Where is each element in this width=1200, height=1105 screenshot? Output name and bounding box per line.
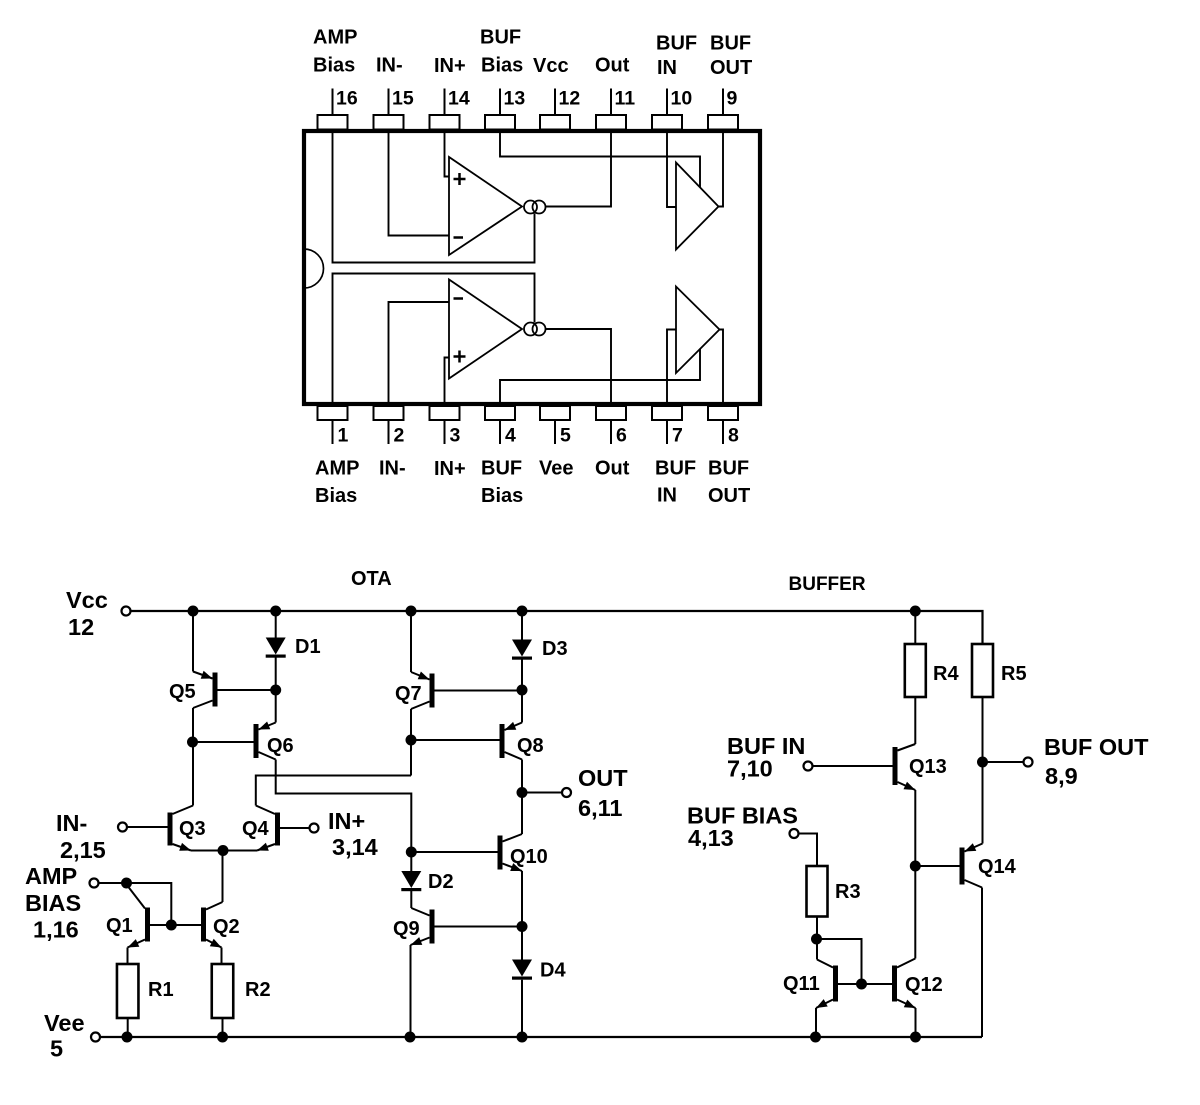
pin 3 xyxy=(430,406,461,447)
svg-text:2,15: 2,15 xyxy=(60,837,106,863)
wire amp A output to pin11 Out xyxy=(546,131,612,207)
diode D1 xyxy=(266,638,286,658)
wire Q6 base to node xyxy=(193,741,254,743)
wire Q5 base to D1 cathode xyxy=(218,689,276,691)
wire Vcc to R4 xyxy=(914,611,916,644)
transistor Q4 (NPN) xyxy=(256,806,280,851)
node: Vcc/D3 junction xyxy=(517,606,528,617)
node: common emitter junction xyxy=(218,845,229,856)
transistor Q14 (PNP) xyxy=(960,843,983,887)
svg-text:Q13: Q13 xyxy=(909,756,947,778)
svg-text:R5: R5 xyxy=(1001,663,1027,685)
svg-text:Bias: Bias xyxy=(313,55,355,77)
svg-text:IN+: IN+ xyxy=(434,458,466,480)
svg-text:R1: R1 xyxy=(148,979,174,1001)
wire Vcc to D1 anode xyxy=(275,611,277,638)
transistor Q5 (PNP) xyxy=(193,671,218,708)
svg-text:OUT: OUT xyxy=(710,57,752,79)
resistor R4 xyxy=(905,644,926,697)
transistor Q7 (PNP) xyxy=(411,672,435,710)
transistor Q10 (NPN) xyxy=(498,834,523,871)
wire Q8 collector to OUT node xyxy=(521,760,523,793)
wire R1 to Vee rail xyxy=(127,1018,129,1037)
Vee rail wire (node Vee) xyxy=(100,1036,982,1038)
svg-text:Bias: Bias xyxy=(315,485,357,507)
node: AMP BIAS / Q1 collector junction xyxy=(121,878,132,889)
svg-text:1,16: 1,16 xyxy=(33,917,79,943)
wire R5 to BUF OUT node xyxy=(982,697,984,762)
svg-text:8: 8 xyxy=(728,425,739,447)
Vee terminal pin 5 xyxy=(44,1010,100,1062)
svg-text:IN-: IN- xyxy=(56,810,87,836)
svg-text:Bias: Bias xyxy=(481,485,523,507)
amp A output current-source symbol xyxy=(524,201,546,214)
pin 10 xyxy=(652,88,692,130)
wire Vcc to Q7 emitter xyxy=(410,611,412,672)
node: Q7 collector / Q8 base xyxy=(406,735,417,746)
transistor Q1 (NPN) xyxy=(127,885,151,948)
wire pin2 IN- to amp B xyxy=(389,302,450,404)
node: Vcc/Q7 junction xyxy=(406,606,417,617)
node: Vcc/Q5 junction xyxy=(188,606,199,617)
wire Q9 emitter to Vee xyxy=(410,945,412,1037)
svg-text:IN: IN xyxy=(657,485,677,507)
wire Q4 base to IN+ xyxy=(280,827,310,829)
pin 16 xyxy=(318,88,358,130)
wire pin16 AMP Bias to amp A bias xyxy=(333,131,535,263)
svg-text:Q14: Q14 xyxy=(978,856,1017,878)
BUF IN terminal pins 7,10 xyxy=(727,733,813,782)
svg-text:BUF: BUF xyxy=(655,458,696,480)
wire D3 cathode to Q8 emitter xyxy=(521,660,523,723)
transistor Q2 (NPN) xyxy=(201,902,223,948)
wire node to D2 anode xyxy=(410,846,412,871)
node: Q5 collector / Q6 base / Q3 collector xyxy=(187,737,198,748)
svg-text:AMP: AMP xyxy=(315,458,359,480)
wire amp B output to pin6 Out xyxy=(546,329,612,404)
svg-text:4: 4 xyxy=(505,425,516,447)
svg-text:Q11: Q11 xyxy=(783,973,820,995)
svg-text:BUF: BUF xyxy=(480,27,521,49)
node: Q12 emitter / Vee junction xyxy=(910,1032,921,1043)
wire Q8 base to Q7 collector node xyxy=(411,739,500,741)
pin 7 xyxy=(652,406,683,447)
svg-text:7,10: 7,10 xyxy=(727,756,773,782)
wire pin1 AMP Bias to amp B bias xyxy=(333,274,535,405)
AMP BIAS terminal pins 1,16 xyxy=(25,863,99,943)
wire pin3 IN+ to amp B xyxy=(445,358,450,405)
op-amp A (OTA A) xyxy=(449,157,522,255)
wire pin7 BUF IN to buffer B xyxy=(667,330,676,405)
svg-text:14: 14 xyxy=(448,88,470,110)
Vcc terminal pin 12 xyxy=(66,587,131,640)
IN+ terminal pins 3,14 xyxy=(310,808,378,860)
wire Q14 collector to Vee rail xyxy=(981,888,983,1038)
svg-text:Q6: Q6 xyxy=(267,735,294,757)
wire pin4 BUF Bias to buffer B xyxy=(500,349,700,405)
transistor Q9 (NPN) xyxy=(411,908,435,945)
wire Vcc to Q5 emitter xyxy=(192,611,194,672)
svg-text:R4: R4 xyxy=(933,663,959,685)
transistor Q8 (PNP) xyxy=(500,722,523,760)
buffer B triangle xyxy=(676,287,720,374)
svg-text:IN-: IN- xyxy=(379,458,406,480)
BUF OUT terminal pins 8,9 xyxy=(1024,734,1150,789)
node: Vcc / R4 junction xyxy=(910,606,921,617)
svg-text:OUT: OUT xyxy=(708,485,750,507)
wire Q1 emitter to R1 xyxy=(127,948,129,965)
wire D4 cathode to Vee xyxy=(521,980,523,1037)
node: D1 / Q5 base / Q6 emitter junction xyxy=(270,685,281,696)
wire D1 cathode down to Q6 emitter xyxy=(275,658,277,723)
bottom pin name labels xyxy=(315,458,750,508)
svg-text:Q4: Q4 xyxy=(242,818,270,840)
svg-text:IN: IN xyxy=(657,57,677,79)
resistor R1 xyxy=(117,964,139,1018)
pin 12 xyxy=(540,88,580,130)
node: Q11 emitter / Vee junction xyxy=(810,1032,821,1043)
transistor Q13 (NPN) xyxy=(893,744,916,790)
OUT terminal pins 6,11 xyxy=(562,765,628,821)
wire IN- to Q3 base xyxy=(127,826,168,828)
svg-text:16: 16 xyxy=(336,88,358,110)
svg-text:AMP: AMP xyxy=(25,863,77,889)
svg-text:9: 9 xyxy=(727,88,738,110)
pin 8 xyxy=(708,406,739,447)
wire BUF IN to Q13 base xyxy=(813,765,893,767)
svg-text:11: 11 xyxy=(615,88,636,110)
node: base rail junction xyxy=(166,920,177,931)
svg-text:Q9: Q9 xyxy=(393,918,420,940)
wire Q10 emitter down xyxy=(521,871,523,960)
pin 5 xyxy=(540,406,571,447)
svg-text:12: 12 xyxy=(559,88,581,110)
BUF BIAS terminal pins 4,13 xyxy=(687,803,799,852)
svg-text:IN-: IN- xyxy=(376,55,403,77)
svg-text:Q10: Q10 xyxy=(510,846,548,868)
pin 15 xyxy=(374,88,414,130)
svg-text:7: 7 xyxy=(672,425,683,447)
svg-text:13: 13 xyxy=(504,88,526,110)
transistor Q3 (NPN) xyxy=(168,806,194,851)
node: D4 / Vee junction xyxy=(517,1032,528,1043)
node: R3 / Q11 collector junction xyxy=(811,934,822,945)
node: Vcc/D1 junction xyxy=(270,606,281,617)
svg-text:D4: D4 xyxy=(540,960,566,982)
diode D3 xyxy=(512,640,532,660)
svg-text:BUF: BUF xyxy=(708,458,749,480)
svg-text:Vee: Vee xyxy=(539,458,573,480)
svg-text:12: 12 xyxy=(68,614,94,640)
svg-text:BUF: BUF xyxy=(710,33,751,55)
transistor Q6 (PNP) xyxy=(254,722,276,760)
svg-text:BUF: BUF xyxy=(656,33,697,55)
svg-text:1: 1 xyxy=(338,425,349,447)
op-amp B (OTA B) xyxy=(449,280,522,379)
wire buffer A output to pin9 BUF OUT xyxy=(719,131,724,207)
wire OUT node to Q10 collector xyxy=(521,793,523,835)
svg-text:R2: R2 xyxy=(245,979,271,1001)
svg-text:Q2: Q2 xyxy=(213,916,240,938)
pin 9 xyxy=(708,88,738,130)
wire Q9 base to Q10 emitter xyxy=(435,926,523,928)
svg-text:Q5: Q5 xyxy=(169,681,196,703)
wire Q2 collector to diff-pair emitters xyxy=(222,851,224,903)
wire BUF OUT node to Q14 emitter xyxy=(982,762,984,844)
wire R3 node to Q11/Q12 base rail xyxy=(817,939,862,981)
svg-text:Vcc: Vcc xyxy=(533,55,569,77)
pin 13 xyxy=(485,88,525,130)
wire Q11 emitter to Vee xyxy=(815,1008,817,1037)
resistor R3 xyxy=(807,866,828,917)
pin 6 xyxy=(596,406,627,447)
wire pin14 IN+ to amp A xyxy=(445,131,450,177)
svg-text:Q1: Q1 xyxy=(106,915,133,937)
svg-text:Vcc: Vcc xyxy=(66,587,108,613)
pin 2 xyxy=(374,406,405,447)
svg-text:AMP: AMP xyxy=(313,27,357,49)
resistor R5 xyxy=(972,644,993,697)
wire Vcc to D3 anode xyxy=(521,611,523,640)
pin 1 xyxy=(318,406,349,447)
resistor R2 xyxy=(212,964,234,1018)
pin 4 xyxy=(485,406,516,447)
svg-text:D1: D1 xyxy=(295,636,321,658)
wire Q11/Q12 base rail xyxy=(838,983,892,985)
svg-text:Vee: Vee xyxy=(44,1010,85,1036)
svg-text:D3: D3 xyxy=(542,638,568,660)
wire Q7 base to D3 cathode xyxy=(435,690,523,692)
svg-text:2: 2 xyxy=(394,425,405,447)
svg-text:Q7: Q7 xyxy=(395,683,422,705)
buffer A triangle xyxy=(676,163,719,250)
svg-text:3,14: 3,14 xyxy=(332,834,378,860)
svg-text:4,13: 4,13 xyxy=(688,825,734,851)
svg-text:R3: R3 xyxy=(835,881,861,903)
wire Q7 collector / Q8 base column xyxy=(410,709,412,776)
node: R2/Vee junction xyxy=(217,1032,228,1043)
svg-text:BUF OUT: BUF OUT xyxy=(1044,734,1149,760)
wire D2 cathode to Q9 collector xyxy=(410,891,412,908)
wire BUF BIAS to R3 xyxy=(799,834,818,867)
node: D3 / Q7 base / Q8 emitter xyxy=(517,685,528,696)
package notch xyxy=(304,249,324,288)
diode D2 xyxy=(401,871,421,891)
wire Q2 emitter to R2 xyxy=(221,948,223,965)
svg-text:BIAS: BIAS xyxy=(25,890,81,916)
svg-text:10: 10 xyxy=(671,88,693,110)
svg-text:Q3: Q3 xyxy=(179,818,206,840)
svg-text:IN+: IN+ xyxy=(434,55,466,77)
pin 11 xyxy=(596,88,635,130)
wire AMP BIAS to Q1 collector and base rail xyxy=(99,883,172,925)
svg-text:OTA: OTA xyxy=(351,568,392,590)
wire Q6 collector to Q10 base line xyxy=(276,760,412,847)
wire Q12 emitter to Vee xyxy=(915,1008,917,1037)
wire Q5 collector down to Q3 xyxy=(192,708,194,742)
node: base rail junction xyxy=(856,979,867,990)
wire Q4 collector to mirror line xyxy=(256,776,411,806)
svg-text:Q12: Q12 xyxy=(905,974,943,996)
top pin name labels xyxy=(313,27,752,80)
wire pin13 BUF Bias to buffer A xyxy=(500,131,700,187)
node: Q10 emitter / Q9 base / D4 xyxy=(517,921,528,932)
node: OUT junction xyxy=(517,787,528,798)
Vcc rail wire (node Vcc) xyxy=(131,611,983,644)
node: Q13 emitter / Q14 base junction xyxy=(910,861,921,872)
wire R2 to Vee rail xyxy=(222,1018,224,1037)
svg-text:5: 5 xyxy=(50,1036,63,1062)
wire Q14 base xyxy=(915,865,959,867)
node: R1/Vee junction xyxy=(122,1032,133,1043)
IC package body U1 xyxy=(304,131,760,404)
wire buffer B output to pin8 BUF OUT xyxy=(720,330,724,405)
svg-text:IN+: IN+ xyxy=(328,808,365,834)
wire Q13 emitter / Q14 base / Q12 collector column xyxy=(914,790,916,959)
wire Q3 collector up to Q5 collector xyxy=(192,742,194,806)
wire Q10 base to node xyxy=(411,851,497,853)
transistor Q12 (NPN) xyxy=(892,959,916,1009)
svg-text:6: 6 xyxy=(616,425,627,447)
wire diff pair common emitters xyxy=(191,850,257,852)
wire R3 to Q11 collector node xyxy=(816,917,818,960)
wire BUF OUT node to terminal xyxy=(983,761,1024,763)
pin 14 xyxy=(430,88,470,130)
wire pin10 BUF IN to buffer A xyxy=(667,131,676,207)
svg-text:15: 15 xyxy=(392,88,414,110)
svg-text:BUF: BUF xyxy=(481,458,522,480)
svg-text:3: 3 xyxy=(450,425,461,447)
svg-text:Q8: Q8 xyxy=(517,735,544,757)
svg-text:Out: Out xyxy=(595,55,630,77)
IN- terminal pins 2,15 xyxy=(56,810,127,863)
svg-text:D2: D2 xyxy=(428,871,454,893)
wire Q1/Q2 base rail xyxy=(150,924,201,926)
diode D4 xyxy=(512,960,532,980)
BUF OUT node junction xyxy=(977,757,988,768)
svg-text:Bias: Bias xyxy=(481,55,523,77)
amp B output current-source symbol xyxy=(524,323,546,336)
svg-text:8,9: 8,9 xyxy=(1045,763,1078,789)
transistor Q11 (NPN) xyxy=(816,960,838,1009)
svg-text:OUT: OUT xyxy=(578,765,628,791)
wire R4 to Q13 collector xyxy=(914,697,916,744)
node: Q9 emitter / Vee junction xyxy=(405,1032,416,1043)
svg-text:5: 5 xyxy=(560,425,571,447)
svg-text:6,11: 6,11 xyxy=(578,795,622,821)
svg-text:BUFFER: BUFFER xyxy=(789,574,866,595)
node: Q10 base / D2 anode xyxy=(406,847,417,858)
wire pin15 IN- to amp A xyxy=(389,131,450,236)
svg-text:Out: Out xyxy=(595,458,630,480)
wire OUT node to terminal xyxy=(522,792,562,794)
